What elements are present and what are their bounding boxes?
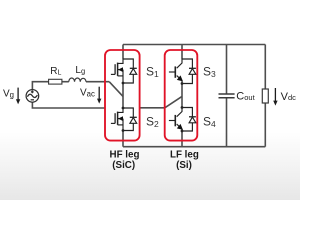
node: S4 emitter junction bbox=[181, 130, 184, 133]
svg-text:Cout: Cout bbox=[236, 91, 255, 103]
svg-text:S4: S4 bbox=[203, 115, 216, 130]
inductor Lg bbox=[69, 78, 86, 82]
wire: load branch top bbox=[264, 45, 266, 90]
wire: bottom bus bbox=[123, 146, 265, 148]
source Vg bbox=[26, 90, 39, 103]
node: S2 drain junction bbox=[122, 107, 125, 110]
wire: RL to Lg bbox=[62, 81, 69, 83]
wire: source bottom run bbox=[32, 102, 105, 108]
wire: Lg to HF box bbox=[86, 81, 109, 83]
node: S1 source junction bbox=[122, 82, 125, 85]
wire: LF leg top stub bbox=[181, 45, 183, 60]
wire: source top to RL bbox=[32, 82, 48, 90]
svg-text:S1: S1 bbox=[146, 65, 159, 80]
wire: Cout branch top bbox=[226, 45, 228, 95]
HF leg red box bbox=[105, 50, 140, 141]
LF leg red box bbox=[165, 50, 198, 141]
node: S4 collector junction bbox=[181, 106, 184, 109]
resistor RL bbox=[49, 79, 62, 84]
wire: LF leg mid bbox=[181, 84, 183, 108]
arrow Vdc bbox=[273, 88, 277, 106]
wire: Cout branch bottom bbox=[226, 98, 228, 147]
svg-text:Lg: Lg bbox=[75, 65, 85, 76]
transistor S2 (SiC MOSFET with body diode) bbox=[111, 108, 137, 131]
wire: HF leg top stub bbox=[122, 45, 124, 60]
svg-text:S3: S3 bbox=[203, 65, 216, 80]
node: S3 emitter junction bbox=[181, 82, 184, 85]
transistor S4 (Si IGBT with diode) bbox=[169, 108, 196, 133]
wire: HF leg bottom stub bbox=[122, 131, 124, 147]
svg-text:Vac: Vac bbox=[80, 88, 95, 99]
load resistor (Vdc load) bbox=[262, 89, 268, 103]
svg-text:Vdc: Vdc bbox=[281, 91, 297, 103]
svg-text:(Si): (Si) bbox=[176, 160, 192, 171]
arrow Vg bbox=[16, 88, 20, 105]
transistor S3 (Si IGBT with diode) bbox=[169, 59, 196, 84]
wire: LF leg bottom stub bbox=[181, 131, 183, 147]
transistor S1 (SiC MOSFET with body diode) bbox=[111, 59, 137, 83]
wire: load branch bottom bbox=[264, 103, 266, 147]
svg-text:RL: RL bbox=[50, 66, 61, 77]
wire: HF leg mid bbox=[122, 83, 124, 108]
svg-text:(SiC): (SiC) bbox=[112, 160, 135, 171]
arrow Vac bbox=[97, 87, 101, 104]
svg-text:S2: S2 bbox=[146, 115, 159, 130]
wire: Vac diagonal to HF midpoint bbox=[109, 82, 123, 97]
wire: HF box to LF midpoint diagonal bbox=[140, 96, 182, 107]
svg-text:Vg: Vg bbox=[3, 88, 14, 99]
node: S2 source junction bbox=[122, 129, 125, 132]
capacitor Cout bbox=[219, 94, 235, 98]
wire: top bus bbox=[123, 44, 265, 46]
